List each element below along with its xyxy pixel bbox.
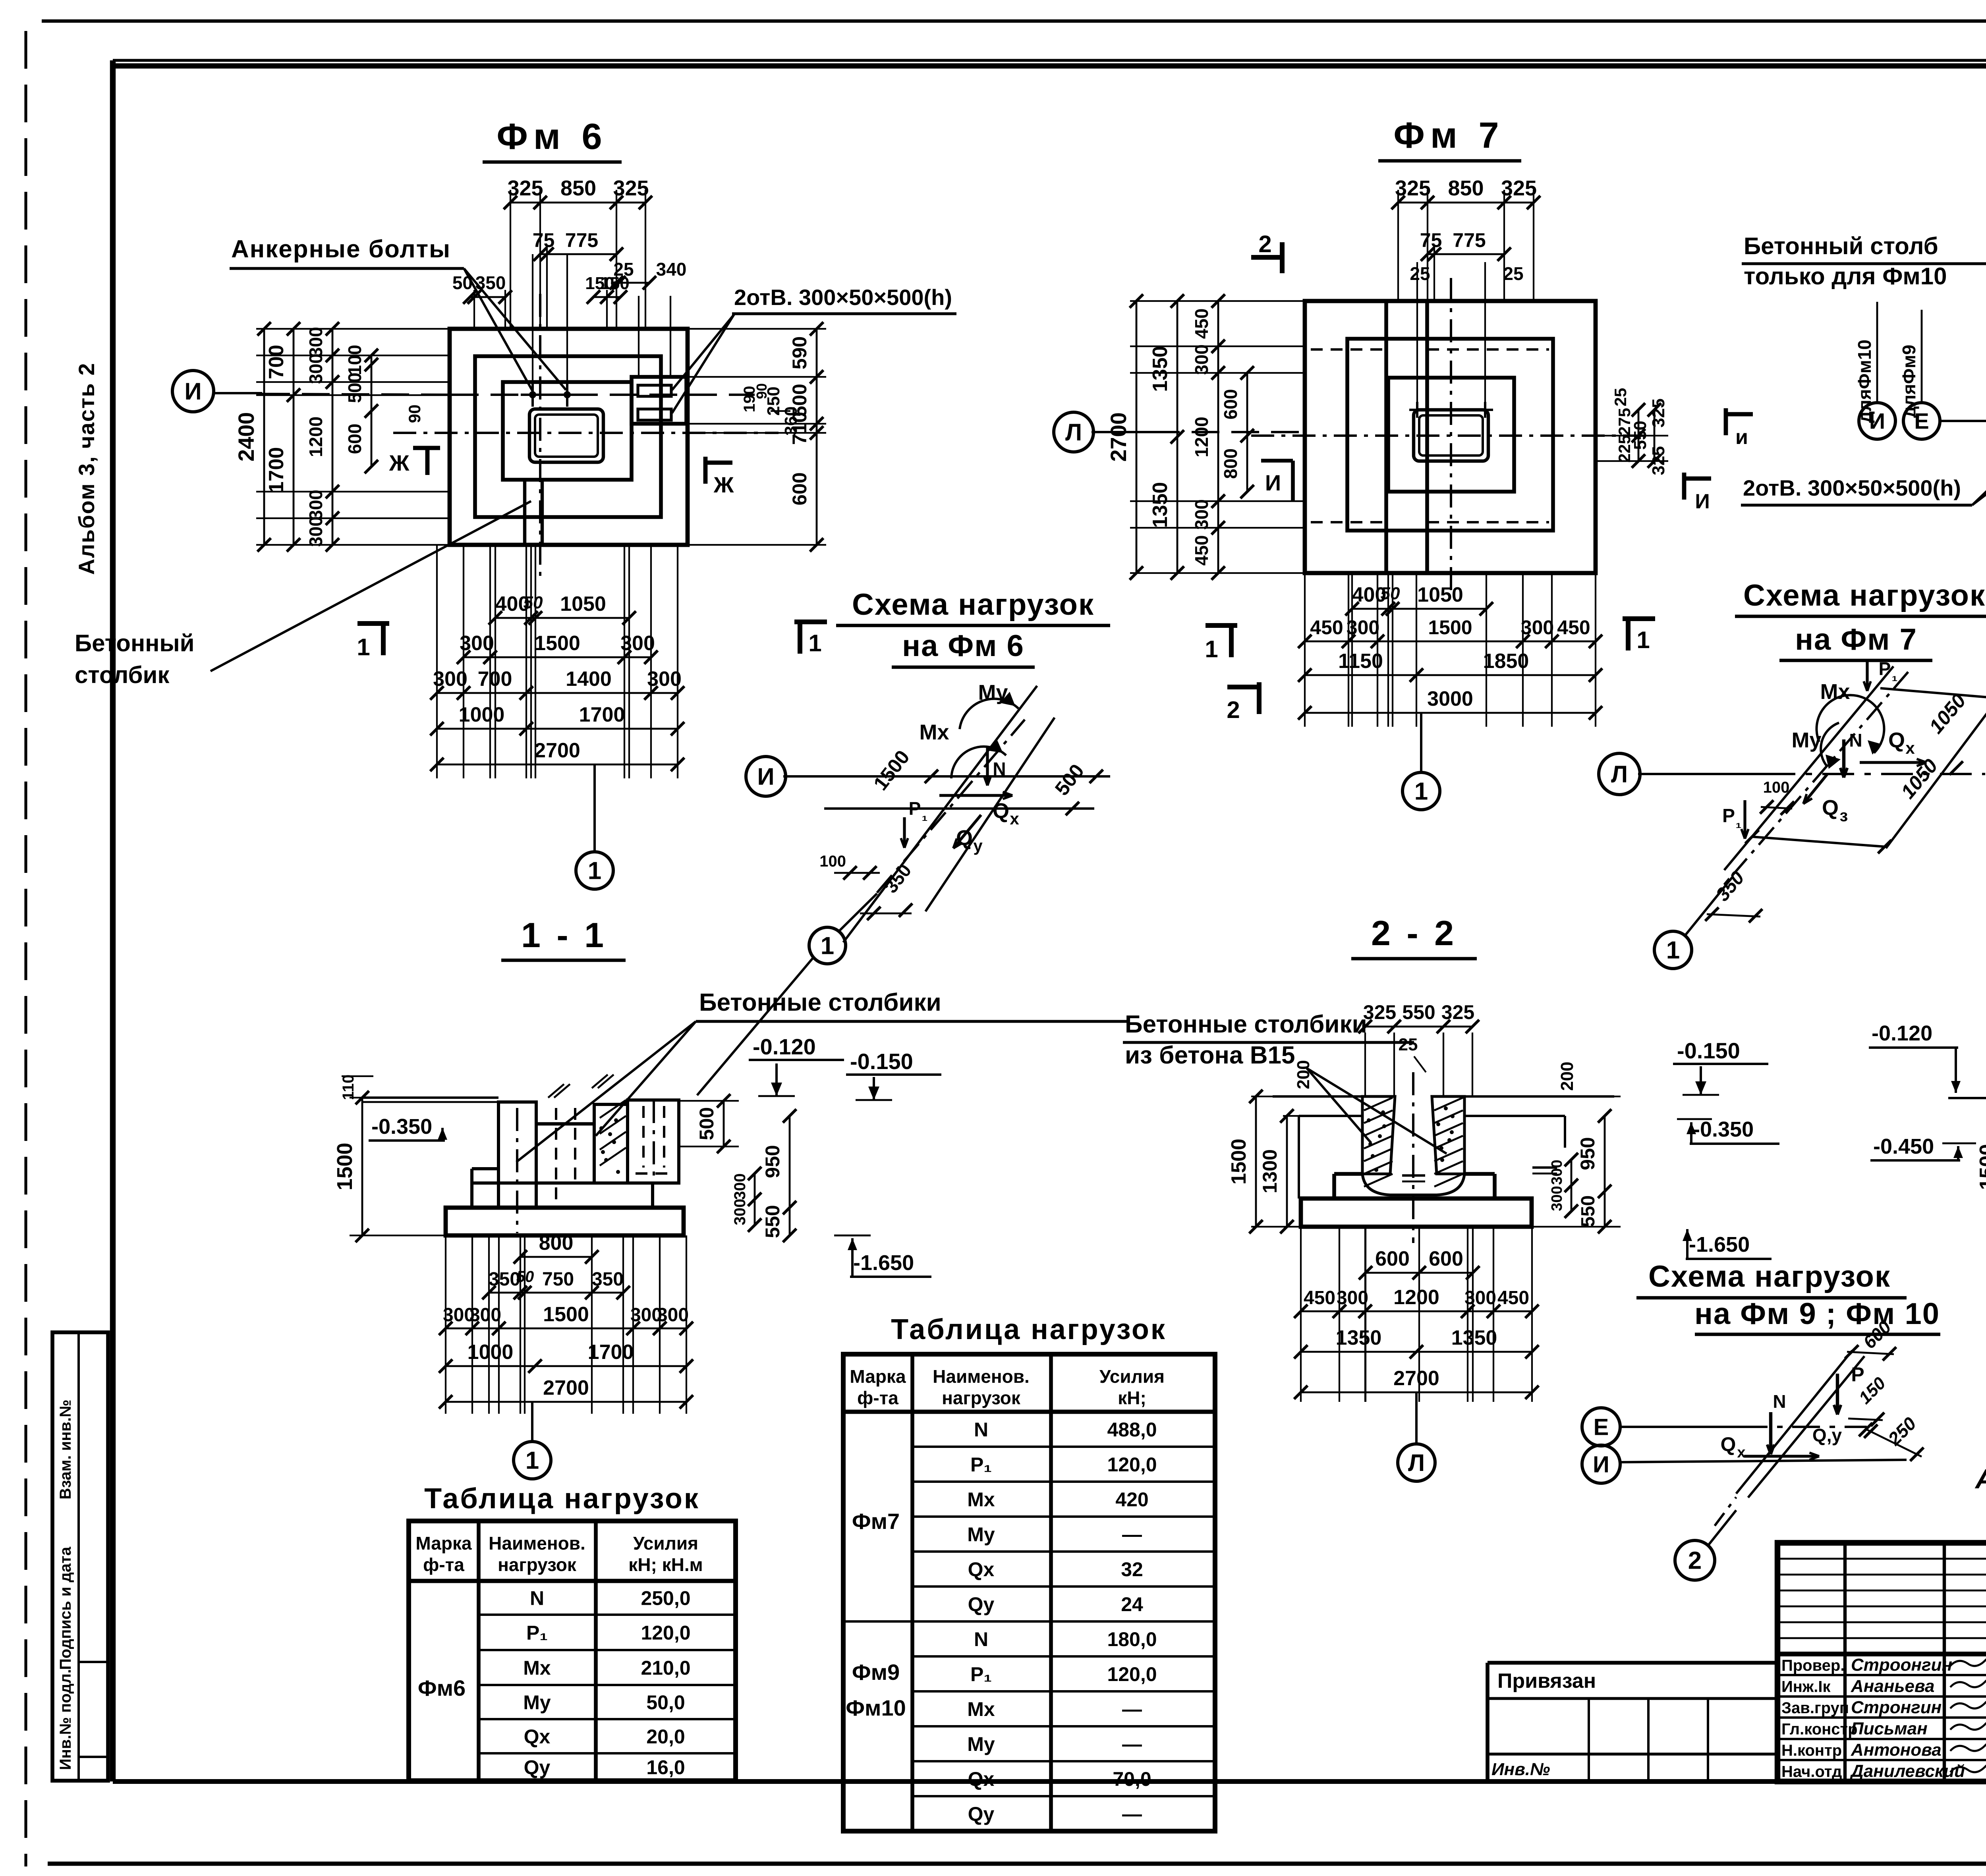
svg-text:300: 300 [1337, 1287, 1368, 1309]
svg-text:1500: 1500 [1976, 1144, 1986, 1190]
Фм7 top dim row 325/850/325 [1397, 190, 1399, 301]
Фм6 vertical dim 700/1700 [293, 329, 295, 545]
svg-text:2700: 2700 [1393, 1367, 1439, 1390]
section 1-1 bottom dim row 800 [520, 1256, 592, 1258]
scheme Фм9/10 force Qx [1744, 1455, 1819, 1457]
section mark Ж left inside Фм6 [413, 446, 440, 450]
svg-text:2отВ. 300×50×500(h): 2отВ. 300×50×500(h) [734, 285, 952, 310]
svg-text:2700: 2700 [1106, 412, 1131, 462]
section 2-2 left dims 200/1300/1500 [1251, 1096, 1301, 1097]
scheme Фм6 plane diagonal 2 [925, 718, 1055, 911]
svg-text:₁: ₁ [1736, 814, 1742, 831]
leader to slot holes [672, 315, 734, 390]
svg-text:1700: 1700 [265, 447, 288, 493]
connector from circle 1 to scheme Фм6 plane [839, 894, 877, 931]
svg-text:420: 420 [1115, 1488, 1148, 1511]
left margin bottom table [52, 1332, 108, 1781]
axis circle 1 below plan Фм7 [1420, 713, 1422, 772]
svg-text:850: 850 [1448, 176, 1484, 200]
section 2-2 pit outline [1298, 1116, 1300, 1199]
svg-text:Р₁: Р₁ [970, 1663, 992, 1685]
svg-text:Подпись и дата: Подпись и дата [57, 1546, 74, 1670]
svg-text:Армирование ф-тов см. лист 15,: Армирование ф-тов см. лист 15,16. [1974, 1463, 1986, 1494]
axis circle И (plan Фм9/10) [1859, 403, 1895, 439]
section 1-1 ground break marks [548, 1084, 564, 1098]
scheme Фм7 plane bottom edge [1752, 837, 1885, 847]
svg-text:Р: Р [1722, 805, 1735, 826]
Фм6 vertical dim 2400 [263, 329, 265, 545]
svg-text:210,0: 210,0 [641, 1657, 690, 1679]
svg-text:Таблица нагрузок: Таблица нагрузок [891, 1314, 1167, 1345]
section 2-2 bottom dim row 1350/1350 [1301, 1351, 1532, 1353]
anchor bolt cross 2 (Фм6) [555, 394, 579, 396]
svg-text:300: 300 [657, 1305, 689, 1326]
svg-text:Бетонный: Бетонный [75, 630, 195, 656]
axis line И dashed [262, 394, 449, 395]
svg-text:у: у [973, 836, 983, 855]
svg-text:Л: Л [1408, 1449, 1425, 1476]
svg-text:И: И [184, 378, 201, 405]
svg-text:450: 450 [1191, 309, 1212, 339]
svg-text:800: 800 [539, 1231, 574, 1255]
svg-text:300: 300 [1191, 344, 1212, 375]
Фм6 vertical dims 100/500/600 [371, 355, 373, 467]
axis circle 1 below plan Фм6 [593, 764, 596, 852]
Фм6 top dim row 325/850/325 [510, 190, 511, 329]
svg-text:75: 75 [1420, 229, 1442, 251]
svg-text:Фм 7: Фм 7 [1393, 115, 1504, 156]
plan Фм7 outer rectangle [1305, 301, 1596, 573]
svg-text:50,0: 50,0 [646, 1691, 685, 1714]
svg-text:550: 550 [1578, 1195, 1599, 1227]
svg-text:25: 25 [1399, 1035, 1418, 1054]
svg-text:100: 100 [344, 345, 365, 375]
svg-text:300: 300 [305, 490, 326, 520]
svg-text:Мх: Мх [523, 1657, 551, 1679]
svg-text:775: 775 [565, 229, 598, 251]
svg-text:-1.650: -1.650 [853, 1251, 914, 1275]
section 1-1 bottom dim row 350/50/750/350 [489, 1292, 623, 1294]
svg-text:300: 300 [620, 632, 655, 655]
svg-text:дляФм9: дляФм9 [1899, 345, 1919, 418]
svg-text:—: — [1122, 1698, 1142, 1720]
section mark и left of Фм9/10 [1724, 408, 1728, 435]
section 2-2 right dims [1532, 1096, 1621, 1097]
section 1-1 mid top edge -0.350 [536, 1122, 596, 1125]
svg-text:300: 300 [731, 1173, 749, 1200]
svg-text:-0.120: -0.120 [1872, 1021, 1932, 1045]
svg-text:180,0: 180,0 [1107, 1628, 1157, 1650]
svg-text:Строонгин: Строонгин [1851, 1655, 1952, 1675]
svg-text:300: 300 [469, 1305, 501, 1326]
svg-text:Му: Му [967, 1523, 995, 1546]
axis line Л dashed [1152, 431, 1303, 433]
scheme Фм9/10 plane diagonal 1 [1736, 1351, 1852, 1494]
svg-text:Марка: Марка [850, 1366, 906, 1387]
scheme Фм7 plane diagonal 2 [1886, 698, 1986, 848]
svg-text:325: 325 [1649, 446, 1668, 475]
svg-text:Мх: Мх [967, 1698, 995, 1720]
svg-text:16,0: 16,0 [646, 1756, 685, 1779]
section 1-1 bottom dim row 1000/1700 [446, 1365, 686, 1367]
svg-text:Инв.№ подл.: Инв.№ подл. [57, 1669, 74, 1770]
section 2-2 U pocket bottom [1362, 1174, 1464, 1195]
svg-text:1350: 1350 [1451, 1326, 1497, 1349]
plan Фм6 slot hole 2 [638, 409, 671, 420]
section 1-1 right dims 300/300 [754, 1173, 756, 1225]
scheme Фм6 centre diagonal dash-dot [877, 720, 1025, 893]
svg-text:з: з [1840, 806, 1848, 825]
leaders Бетонные столбики (1-1) [596, 1021, 696, 1136]
svg-text:-0.120: -0.120 [753, 1034, 816, 1059]
svg-text:Ж: Ж [713, 472, 734, 497]
section 2-2 pocket interior lines [1390, 1096, 1395, 1174]
svg-text:325: 325 [1395, 176, 1431, 200]
svg-text:2700: 2700 [534, 739, 580, 762]
scheme Фм7 force N [1842, 739, 1845, 778]
svg-text:Е: Е [1594, 1414, 1609, 1440]
plan Фм6 vertical centerline [539, 294, 541, 580]
svg-text:2: 2 [1227, 697, 1240, 723]
svg-text:2отВ. 300×50×500(h): 2отВ. 300×50×500(h) [1743, 475, 1961, 500]
plan Фм7 dashed horizontals [1311, 348, 1386, 351]
svg-text:нагрузок: нагрузок [942, 1388, 1021, 1408]
Фм6 top dim row 25/340 [616, 282, 649, 284]
привязан table [1488, 1661, 1777, 1665]
main drawing frame [113, 59, 1986, 62]
svg-text:50: 50 [516, 1268, 534, 1285]
svg-text:Фм6: Фм6 [418, 1675, 466, 1700]
scheme Фм6 moment arc My [960, 699, 1018, 729]
svg-text:Инж.Iк: Инж.Iк [1781, 1678, 1831, 1696]
svg-text:Р: Р [909, 798, 921, 819]
scheme Фм7 moment arc Mx [1816, 695, 1884, 753]
svg-text:1200: 1200 [1393, 1286, 1439, 1309]
axis circle И (scheme Фм6) [746, 757, 786, 796]
svg-text:Q: Q [956, 826, 973, 850]
svg-text:Схема нагрузок: Схема нагрузок [1743, 579, 1986, 612]
svg-text:325: 325 [507, 176, 543, 200]
section 2-2 bottom dim row 2700 [1301, 1392, 1532, 1393]
Фм6 top dim row 75/775 [546, 246, 548, 329]
scheme Фм7 dim 100 [1761, 807, 1792, 809]
title block names rows [1777, 1674, 1986, 1676]
axis circle 1 below section 1-1 [531, 1402, 533, 1442]
svg-text:х: х [1010, 809, 1019, 828]
svg-text:2400: 2400 [234, 412, 259, 462]
leaders to slots (Фм9/10) [1972, 400, 1986, 505]
svg-text:600: 600 [788, 472, 811, 505]
svg-text:на Фм 6: на Фм 6 [902, 629, 1024, 663]
Фм6 right dimension extension lines [688, 328, 826, 330]
plan Фм7 horizontal centerline [1251, 434, 1648, 437]
section 2-2 left hatched column [1362, 1096, 1395, 1174]
Фм6 bottom dim row 300/1500/300 [464, 656, 651, 658]
svg-text:Мх: Мх [1820, 680, 1850, 704]
svg-text:700: 700 [478, 668, 512, 691]
Фм7 bottom dim row 3000 [1305, 712, 1596, 714]
title block top small rows [1777, 1558, 1986, 1560]
svg-text:Мх: Мх [967, 1488, 995, 1511]
svg-text:300: 300 [1549, 1186, 1565, 1211]
svg-text:Анкерные болты: Анкерные болты [231, 235, 451, 263]
svg-text:И: И [1695, 490, 1710, 513]
svg-text:кН; кН.м: кН; кН.м [628, 1554, 703, 1575]
scheme Фм7 plane diagonal 1 [1724, 666, 1893, 870]
svg-text:—: — [1122, 1733, 1142, 1755]
Фм6 bolt axis extension lines [532, 254, 533, 387]
svg-text:300: 300 [1347, 616, 1379, 639]
svg-text:250,0: 250,0 [641, 1587, 690, 1610]
svg-text:1 - 1: 1 - 1 [521, 915, 607, 955]
svg-text:Наименов.: Наименов. [489, 1533, 585, 1554]
svg-text:25: 25 [1410, 263, 1430, 284]
scheme Фм6 lower horizontal axis [824, 807, 1094, 810]
axis circle Е (scheme) [1582, 1408, 1620, 1446]
title block main horizontal line [1777, 1652, 1986, 1656]
Фм6 bottom dim row 1000/1700 [437, 728, 678, 730]
svg-text:Наименов.: Наименов. [933, 1366, 1030, 1387]
svg-text:1: 1 [1666, 937, 1680, 964]
svg-text:120,0: 120,0 [1107, 1453, 1157, 1476]
svg-text:Р: Р [1879, 658, 1891, 679]
svg-text:850: 850 [560, 176, 596, 200]
svg-text:N: N [530, 1587, 544, 1610]
svg-text:450: 450 [1191, 535, 1212, 566]
section 2-2 pedestal [1334, 1172, 1362, 1176]
svg-text:950: 950 [1576, 1137, 1599, 1170]
svg-text:1500: 1500 [1428, 616, 1472, 639]
scheme Фм9/10 dim 150 [1848, 1419, 1883, 1420]
leader to bolts [464, 268, 533, 391]
svg-text:325: 325 [1649, 398, 1668, 427]
section 1-1 bottom dim row 2700 [446, 1401, 686, 1403]
svg-text:1500: 1500 [333, 1143, 357, 1190]
svg-text:600: 600 [344, 424, 365, 454]
section 2-2 centerline [1412, 1072, 1414, 1243]
plan Фм6 column strip below pedestal [523, 480, 526, 545]
svg-text:на Фм 7: на Фм 7 [1795, 623, 1917, 656]
svg-text:Р₁: Р₁ [526, 1622, 548, 1644]
svg-text:И: И [757, 763, 774, 790]
svg-text:1: 1 [588, 857, 601, 885]
svg-text:1: 1 [1205, 636, 1218, 662]
svg-text:300: 300 [433, 668, 468, 691]
svg-text:N: N [993, 759, 1006, 779]
svg-text:20,0: 20,0 [646, 1725, 685, 1748]
svg-text:1: 1 [1636, 627, 1650, 653]
svg-text:350: 350 [475, 272, 506, 293]
scheme Фм7 moment arc My [1821, 723, 1839, 766]
section 2-2 bottom dim row 450/300/1200/300/450 [1301, 1310, 1532, 1312]
svg-text:500: 500 [344, 372, 365, 403]
svg-text:Данилевский: Данилевский [1849, 1762, 1965, 1781]
svg-text:1050: 1050 [1417, 583, 1463, 606]
svg-text:325: 325 [1363, 1001, 1396, 1023]
section 2-2 right hatched column [1432, 1096, 1464, 1174]
page trim border bottom [48, 1862, 1986, 1866]
scheme Фм7 centre diagonal dash-dot [1732, 672, 1908, 876]
svg-text:488,0: 488,0 [1107, 1419, 1157, 1441]
Фм6 top dim row 50/350 and 150/150 [473, 290, 475, 329]
svg-text:Qх: Qх [968, 1768, 995, 1790]
svg-text:1500: 1500 [543, 1303, 589, 1326]
svg-text:120,0: 120,0 [641, 1622, 690, 1644]
right load table grid [843, 1354, 1215, 1831]
svg-text:N: N [1773, 1391, 1786, 1412]
svg-text:1300: 1300 [1259, 1149, 1281, 1193]
Фм6 bottom dim extension lines [436, 545, 438, 778]
Фм7 top dim row 75/775 [1433, 246, 1435, 301]
svg-text:Qу: Qу [524, 1756, 551, 1779]
svg-text:700: 700 [265, 345, 288, 379]
plan Фм7 middle rectangle [1347, 339, 1553, 531]
svg-text:-0.150: -0.150 [1677, 1038, 1740, 1063]
svg-text:800: 800 [1220, 448, 1241, 479]
svg-text:Бетонные столбики: Бетонные столбики [1125, 1011, 1367, 1038]
svg-text:Му: Му [523, 1691, 551, 1714]
Фм6 left dimension extension lines [256, 328, 450, 330]
svg-text:Фм10: Фм10 [846, 1695, 906, 1720]
plan Фм7 bolt marks [1416, 402, 1418, 418]
axis circle Л below section 2-2 [1415, 1392, 1418, 1444]
plan Фм6 middle step rectangle [475, 356, 661, 517]
Фм6 bottom dim row 300/700/1400/300 [437, 692, 678, 694]
Фм7 right dims [1596, 435, 1668, 436]
svg-text:Р₁: Р₁ [970, 1453, 992, 1476]
plan Фм6 slot hole 1 [638, 385, 671, 396]
svg-text:нагрузок: нагрузок [498, 1554, 577, 1575]
Фм6 bottom dim row 400/50/1050 [495, 617, 629, 619]
plan Фм7 vertical strip [1384, 301, 1388, 573]
svg-text:300: 300 [647, 668, 682, 691]
svg-text:Письман: Письман [1851, 1719, 1928, 1739]
section mark Ж right of Фм6 [703, 457, 708, 484]
svg-text:ф-та: ф-та [857, 1388, 898, 1408]
section 1-1 right vdim 950/550 [789, 1116, 791, 1235]
section 1-1 right vdim 500 [679, 1100, 739, 1102]
svg-text:300: 300 [731, 1199, 749, 1226]
leaders (2-2) [1307, 1068, 1371, 1143]
leader Бетонный столбик [211, 501, 531, 671]
Фм6 appendage slot extension lines [638, 296, 639, 377]
plan Фм6 pedestal rectangle [503, 382, 632, 480]
leader line from circle 1 [697, 958, 813, 1095]
axis circle И (scheme) [1582, 1445, 1620, 1483]
svg-text:1200: 1200 [1191, 417, 1212, 457]
svg-text:775: 775 [1453, 229, 1486, 251]
svg-text:на Фм 9 ; Фм 10: на Фм 9 ; Фм 10 [1694, 1297, 1940, 1331]
svg-text:2700: 2700 [543, 1376, 589, 1399]
scheme Фм6 force N [986, 747, 989, 786]
scheme Фм9/10 force N [1769, 1412, 1772, 1454]
svg-text:750: 750 [542, 1269, 574, 1290]
section 1-1 hatched concrete column [594, 1104, 628, 1183]
scheme Фм7 force P1 upper [1866, 660, 1868, 691]
svg-text:325: 325 [613, 176, 649, 200]
Фм7 bottom dim row 400/50/1050 [1352, 608, 1486, 610]
Фм7 vertical dim 2700 [1136, 301, 1138, 573]
svg-text:110: 110 [340, 1075, 357, 1100]
svg-text:300: 300 [460, 632, 494, 655]
svg-text:1: 1 [808, 630, 821, 656]
svg-text:2: 2 [1688, 1547, 1702, 1575]
svg-text:ф-та: ф-та [423, 1554, 464, 1575]
svg-text:Н.контр: Н.контр [1781, 1742, 1842, 1759]
Фм6 vertical dims 300/300/1200/300/300 [332, 329, 334, 545]
Фм7 vertical dims 1350/1350 [1177, 301, 1178, 573]
svg-text:450: 450 [1497, 1287, 1529, 1309]
svg-text:1400: 1400 [566, 668, 612, 691]
svg-text:325: 325 [1441, 1001, 1474, 1023]
page trim border left (dashed) [24, 31, 27, 1866]
svg-text:Схема нагрузок: Схема нагрузок [852, 588, 1094, 621]
svg-text:Бетонный столб: Бетонный столб [1744, 233, 1938, 259]
svg-text:350: 350 [592, 1269, 624, 1290]
section 1-1 bottom dim extension lines [445, 1235, 446, 1414]
svg-text:Фм7: Фм7 [852, 1509, 900, 1534]
plan Фм7 pedestal rectangle [1388, 378, 1514, 492]
section 1-1 left vdim 1500 [350, 1097, 446, 1098]
svg-text:1150: 1150 [1338, 650, 1383, 673]
svg-text:И: И [1593, 1451, 1609, 1477]
svg-text:340: 340 [656, 259, 687, 280]
section 2-2 base slab [1301, 1199, 1532, 1227]
section 3-3 floor left at -0.120 [1948, 1097, 1986, 1099]
svg-text:Р: Р [1851, 1363, 1864, 1386]
section 1-1 right column dashed bolt [642, 1106, 645, 1168]
svg-text:Привязан: Привязан [1497, 1669, 1596, 1693]
svg-text:Ж: Ж [389, 450, 410, 475]
svg-text:₁: ₁ [922, 807, 928, 824]
section mark 1 bottom-left of Фм6 [357, 621, 389, 626]
title block signatures [1950, 1658, 1986, 1666]
svg-text:—: — [1122, 1803, 1142, 1825]
section 2-2 floor lines [1273, 1095, 1362, 1098]
scheme Фм7 force Qx [1860, 761, 1926, 764]
svg-text:1850: 1850 [1483, 650, 1529, 673]
svg-text:25: 25 [1611, 388, 1630, 407]
svg-text:50: 50 [452, 272, 473, 293]
svg-text:Qх: Qх [968, 1558, 995, 1581]
svg-text:Ананьева: Ананьева [1851, 1677, 1934, 1696]
svg-text:24: 24 [1121, 1593, 1143, 1615]
svg-text:Му: Му [967, 1733, 995, 1755]
svg-text:1700: 1700 [579, 703, 625, 726]
svg-text:600: 600 [1375, 1247, 1410, 1270]
svg-text:Схема нагрузок: Схема нагрузок [1648, 1260, 1891, 1293]
svg-text:300: 300 [305, 353, 326, 384]
svg-text:только для Фм10: только для Фм10 [1744, 263, 1947, 290]
scheme Фм6 dim 100 350 [834, 872, 880, 874]
svg-text:Таблица нагрузок: Таблица нагрузок [424, 1483, 700, 1515]
svg-text:950: 950 [761, 1145, 784, 1178]
svg-text:32: 32 [1121, 1558, 1143, 1581]
svg-text:100: 100 [819, 853, 846, 870]
svg-text:дляФм10: дляФм10 [1854, 340, 1875, 423]
svg-text:1350: 1350 [1149, 346, 1172, 392]
svg-text:Л: Л [1611, 761, 1628, 787]
svg-text:300: 300 [1521, 616, 1554, 639]
svg-text:Q: Q [1888, 728, 1905, 752]
svg-text:1350: 1350 [1149, 482, 1172, 528]
axis circle Е (plan Фм9/10) [1903, 403, 1940, 439]
svg-text:Q: Q [1822, 796, 1839, 820]
svg-text:100: 100 [1763, 779, 1790, 796]
svg-text:₁: ₁ [1892, 668, 1898, 684]
svg-text:Qу: Qу [968, 1593, 995, 1615]
svg-text:N: N [1849, 730, 1862, 751]
